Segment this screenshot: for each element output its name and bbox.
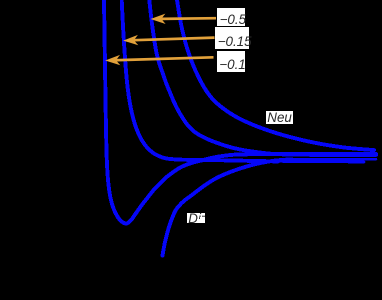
arrow to curve A (-0.1)	[105, 55, 213, 65]
white patch over lower-right of Dir text	[200, 217, 206, 224]
curve B tail (thin, ends x=364)	[278, 160, 364, 163]
label -0.1	[217, 51, 246, 72]
curve E tail (thin, ends x=376)	[292, 158, 376, 161]
arrow to curve C (-0.5)	[151, 14, 217, 24]
curve D (Neu): uppermost descending branch	[177, 0, 374, 150]
label Dir (clipped)	[187, 213, 205, 224]
curve A (-0.1): steep branch with dip, rising to asymptote	[104, 0, 376, 224]
curve E (Dir): rising branch from bottom	[163, 159, 293, 255]
curve C (-0.5): descending branch flattening near y=156	[149, 0, 376, 155]
label Neu	[266, 111, 293, 124]
label -0.5	[217, 8, 245, 27]
arrow to curve B (-0.15)	[123, 35, 214, 45]
curve B (-0.15): descending branch flattening near y=160	[122, 0, 278, 161]
label -0.15	[215, 27, 250, 49]
